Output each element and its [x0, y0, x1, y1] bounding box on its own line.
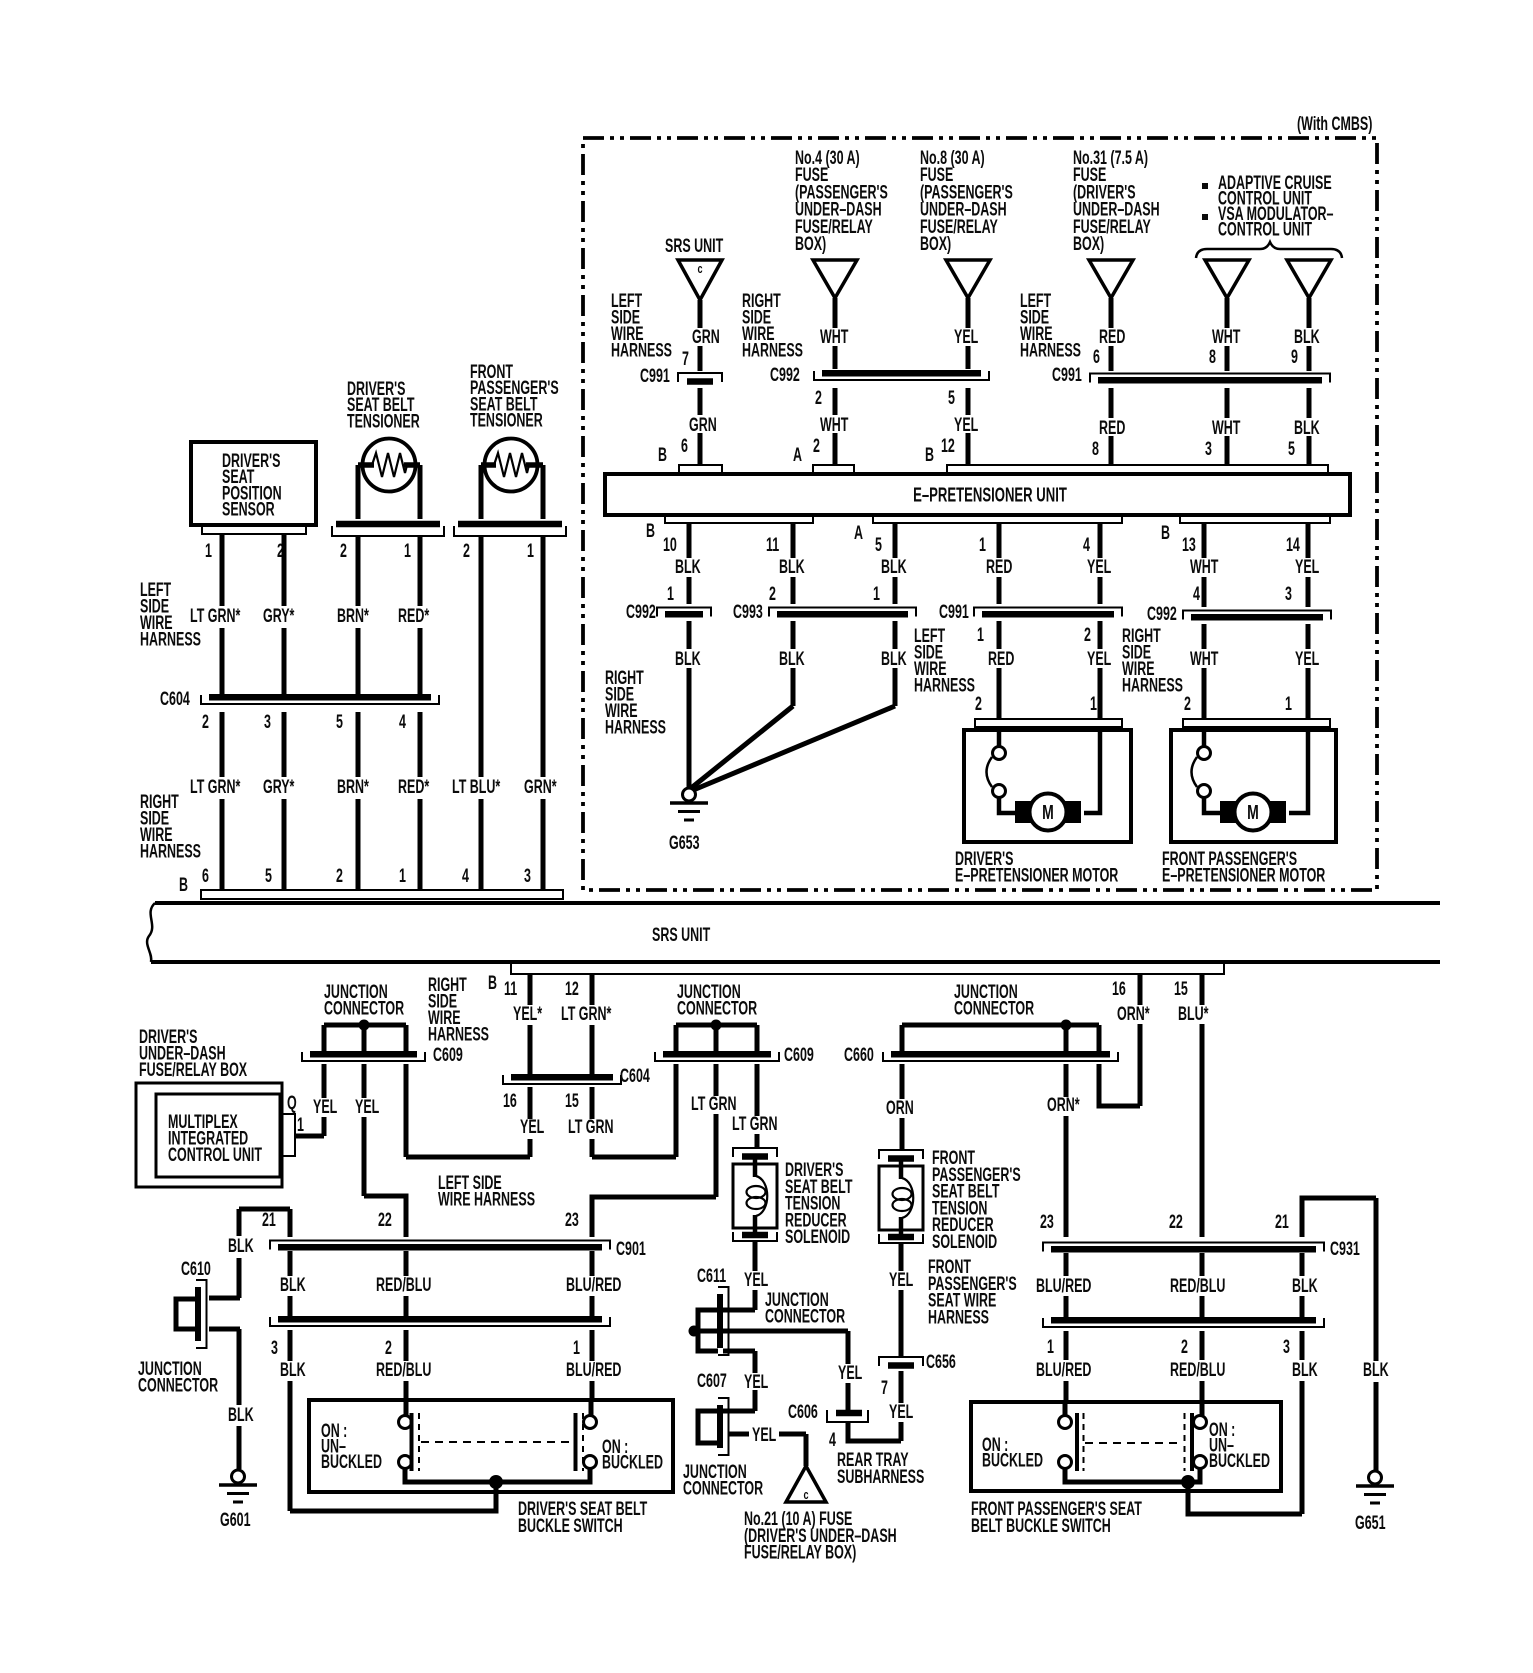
- svg-text:YEL: YEL: [313, 1096, 337, 1117]
- wire BLK C901-3 to switch common: [288, 1330, 293, 1511]
- label multiplex integrated control unit: [168, 1111, 262, 1165]
- label front passenger's seat belt buckle switch: [971, 1498, 1142, 1536]
- svg-text:HARNESS: HARNESS: [928, 1307, 989, 1328]
- label WHT below: [1190, 648, 1218, 669]
- wire BLU/RED C901-1 to switch: [590, 1330, 595, 1402]
- label C991 (right): [1052, 364, 1082, 385]
- ground G651: [1356, 1471, 1394, 1503]
- label LT GRN (JC2 center): [691, 1093, 736, 1114]
- svg-text:BOX): BOX): [795, 233, 826, 254]
- ground G601: [219, 1470, 257, 1502]
- pin 2 (SRS B): [336, 865, 343, 886]
- svg-text:8: 8: [1209, 346, 1216, 367]
- svg-text:(With CMBS): (With CMBS): [1297, 113, 1372, 134]
- wire JC1 right leg lower: [404, 1064, 409, 1157]
- pin 2 (E-pret A): [813, 435, 820, 456]
- svg-text:1: 1: [979, 534, 986, 555]
- wire LT BLU* tensioner2-2 to SRS B4: [479, 536, 484, 890]
- wire BLK C931-3 down: [1300, 1331, 1305, 1514]
- svg-text:FUSE/RELAY BOX): FUSE/RELAY BOX): [744, 1542, 856, 1563]
- connector C609 (left): [302, 1052, 425, 1061]
- label BLK (11): [779, 556, 805, 577]
- svg-text:WHT: WHT: [1212, 417, 1240, 438]
- svg-text:C607: C607: [697, 1370, 727, 1391]
- svg-text:HARNESS: HARNESS: [428, 1024, 489, 1045]
- svg-text:YEL: YEL: [744, 1371, 768, 1392]
- svg-text:HARNESS: HARNESS: [605, 717, 666, 738]
- svg-text:1: 1: [527, 540, 534, 561]
- label YEL (4): [1087, 556, 1111, 577]
- wire into driver motor pin 2: [997, 727, 1002, 747]
- pin 2 (C993): [769, 583, 776, 604]
- driver's seat belt buckle switch box: [309, 1400, 673, 1492]
- label driver's under-dash fuse/relay box: [139, 1026, 247, 1080]
- pin 1 (C931): [1047, 1336, 1054, 1357]
- wire contact to motor brush: [999, 797, 1016, 813]
- junction dot passenger switch common: [1181, 1475, 1195, 1489]
- label left side wire harness (left): [140, 579, 201, 650]
- wire YEL E-pret 4 to driver motor: [1098, 523, 1103, 719]
- svg-text:1: 1: [297, 1114, 304, 1135]
- label YEL (C656 lower): [889, 1401, 913, 1422]
- svg-text:BUCKLED: BUCKLED: [1209, 1450, 1270, 1471]
- label C610: [181, 1258, 211, 1279]
- svg-text:BLU/RED: BLU/RED: [566, 1359, 622, 1380]
- connector driver's solenoid top: [733, 1148, 777, 1157]
- label WHT lower: [820, 414, 848, 435]
- svg-text:E–PRETENSIONER MOTOR: E–PRETENSIONER MOTOR: [955, 865, 1118, 886]
- wire YEL C607 to fuse No.21: [729, 1434, 806, 1466]
- svg-text:1: 1: [977, 624, 984, 645]
- wire GRN from SRS unit to E-pretensioner B6: [698, 300, 703, 465]
- wire tensioner1 pin 1: [418, 465, 423, 519]
- wire BLU/RED into box: [589, 1402, 594, 1416]
- label YEL (C607-fuse): [752, 1424, 776, 1445]
- svg-text:LT GRN*: LT GRN*: [190, 776, 241, 797]
- driver's seat belt tensioner symbol: [358, 439, 420, 492]
- svg-text:BLK: BLK: [1292, 1359, 1318, 1380]
- svg-text:C991: C991: [1052, 364, 1082, 385]
- svg-text:BUCKLE SWITCH: BUCKLE SWITCH: [518, 1515, 623, 1536]
- label C992 (top): [770, 364, 800, 385]
- svg-text:B: B: [1161, 522, 1170, 543]
- svg-text:1: 1: [667, 583, 674, 604]
- svg-text:13: 13: [1182, 534, 1196, 555]
- wire WHT E-pret 13 to passenger motor: [1202, 523, 1207, 719]
- wire BLK E-pret 5 to C993: [893, 523, 898, 706]
- pin group B (12): [925, 444, 934, 465]
- connector C992 (mid left): [657, 608, 711, 617]
- label RED* upper: [398, 605, 430, 626]
- svg-text:FUSE/RELAY BOX: FUSE/RELAY BOX: [139, 1059, 247, 1080]
- label ORN* (SRS 16): [1117, 1003, 1150, 1024]
- svg-text:BUCKLED: BUCKLED: [321, 1451, 382, 1472]
- wire JC2 right leg upper: [755, 1025, 760, 1052]
- label front passenger's seat wire harness: [928, 1256, 1017, 1328]
- pin 2 (C992): [815, 387, 822, 408]
- label driver's e-pretensioner motor: [955, 848, 1118, 886]
- wire GRY* sensor 2 to SRS B5: [282, 534, 287, 890]
- svg-text:CONNECTOR: CONNECTOR: [765, 1306, 845, 1327]
- junction connector C609 right top bar: [676, 1023, 757, 1028]
- svg-text:23: 23: [565, 1209, 579, 1230]
- ground G653: [670, 788, 708, 820]
- label WHT upper right: [1212, 326, 1240, 347]
- svg-text:BLK: BLK: [1363, 1359, 1389, 1380]
- wire RED/BLU C901-2 to switch: [404, 1330, 409, 1416]
- label (With CMBS): [1297, 113, 1372, 134]
- pin 2 (passenger motor): [1184, 693, 1191, 714]
- svg-text:YEL: YEL: [355, 1096, 379, 1117]
- tab E-pret pins 13-14: [1180, 515, 1330, 523]
- svg-text:YEL: YEL: [954, 326, 978, 347]
- connector passenger's solenoid bottom: [879, 1234, 923, 1243]
- passenger switch dashed link: [1085, 1442, 1183, 1444]
- dash-dot border (With CMBS section): [583, 138, 1377, 890]
- pin 14: [1286, 534, 1301, 555]
- pin 4: [1083, 534, 1091, 555]
- svg-text:YEL: YEL: [744, 1269, 768, 1290]
- label C660: [844, 1044, 874, 1065]
- wire stub into passenger solenoid coil: [899, 1160, 904, 1179]
- label BLK (5): [881, 556, 907, 577]
- brace over adaptive cruise / VSA triangles: [1196, 242, 1342, 258]
- pin 5 (E-pret): [1288, 438, 1295, 459]
- svg-text:2: 2: [202, 711, 209, 732]
- pin 5: [875, 534, 882, 555]
- svg-text:C609: C609: [433, 1044, 463, 1065]
- pin 15 (C604): [565, 1090, 579, 1111]
- svg-text:2: 2: [1184, 693, 1191, 714]
- label right side wire harness (top): [742, 290, 803, 361]
- label YEL below (14): [1295, 648, 1319, 669]
- svg-text:2: 2: [336, 865, 343, 886]
- svg-text:1: 1: [1047, 1336, 1054, 1357]
- wire rear tray subharness: [848, 1423, 901, 1441]
- wire BLK VSA modulator to E-pretensioner 5: [1307, 298, 1312, 465]
- svg-text:HARNESS: HARNESS: [140, 841, 201, 862]
- SRS unit connector triangle with c: [678, 260, 722, 300]
- front passenger's seat belt tension reducer solenoid box: [879, 1166, 923, 1230]
- label front passenger's e-pretensioner motor: [1162, 848, 1325, 886]
- label right side wire harness (below SRS): [428, 974, 489, 1045]
- wire BLK to ground G651: [1374, 1198, 1379, 1471]
- wire stub C610 bottom: [209, 1327, 240, 1332]
- svg-text:3: 3: [1283, 1336, 1290, 1357]
- svg-text:B: B: [179, 874, 188, 895]
- svg-text:2: 2: [463, 540, 470, 561]
- wire RED/BLU between C901 bars: [404, 1251, 409, 1316]
- label C604 (left): [160, 688, 191, 709]
- passenger switch right contact: [1185, 1413, 1207, 1471]
- wire C660 center leg upper: [1064, 1025, 1069, 1052]
- front passenger's seat belt tensioner symbol: [481, 439, 543, 492]
- label BLK below (5): [881, 648, 907, 669]
- svg-text:BLK: BLK: [675, 648, 701, 669]
- svg-text:1: 1: [399, 865, 406, 886]
- wire to MICU pin 1: [296, 1134, 324, 1139]
- svg-text:BLU*: BLU*: [1178, 1003, 1209, 1024]
- wire diagonal BLK to ground: [690, 706, 793, 789]
- svg-text:CONNECTOR: CONNECTOR: [324, 998, 404, 1019]
- svg-text:C991: C991: [939, 601, 969, 622]
- junction connector C609 left top bar: [324, 1023, 406, 1028]
- wire LT GRN jog to C901 pin 23: [592, 1197, 716, 1237]
- pin 1 (MICU): [297, 1114, 304, 1135]
- front passenger's e-pretensioner motor box: [1171, 730, 1336, 842]
- svg-text:CONTROL UNIT: CONTROL UNIT: [168, 1144, 262, 1165]
- svg-text:BLK: BLK: [881, 556, 907, 577]
- svg-text:12: 12: [565, 978, 579, 999]
- svg-text:5: 5: [336, 711, 343, 732]
- wire stub into driver solenoid coil: [753, 1158, 758, 1177]
- svg-text:1: 1: [205, 540, 212, 561]
- adaptive cruise control unit triangle: [1205, 260, 1249, 298]
- svg-text:C604: C604: [620, 1065, 651, 1086]
- wire BLU/RED C931-1 to switch: [1064, 1331, 1069, 1402]
- label LT GRN (C604-15): [568, 1116, 613, 1137]
- label RED/BLU (C901 low): [376, 1359, 431, 1380]
- svg-text:B: B: [646, 520, 655, 541]
- label C992 (mid right): [1147, 603, 1177, 624]
- svg-text:TENSIONER: TENSIONER: [470, 410, 543, 431]
- svg-text:WHT: WHT: [1190, 648, 1218, 669]
- label fuse No.21: [744, 1508, 897, 1563]
- label left side wire harness (lower): [438, 1172, 535, 1210]
- label E-PRETENSIONER UNIT: [913, 483, 1067, 507]
- svg-text:C992: C992: [770, 364, 800, 385]
- svg-text:2: 2: [1084, 624, 1091, 645]
- wire stub out of driver solenoid coil: [753, 1215, 758, 1237]
- label RED/BLU (C901 mid): [376, 1274, 431, 1295]
- label right side wire harness (left): [140, 791, 201, 862]
- wire RED E-pret 1 to driver motor: [997, 523, 1002, 719]
- svg-text:WHT: WHT: [820, 414, 848, 435]
- svg-text:C931: C931: [1330, 1238, 1360, 1259]
- svg-text:G651: G651: [1355, 1512, 1386, 1533]
- wire YEL into driver motor pin 1: [1084, 727, 1100, 813]
- connector C931 (lower bar): [1043, 1318, 1324, 1327]
- pin 21 (C901): [262, 1209, 276, 1230]
- svg-text:BUCKLED: BUCKLED: [602, 1452, 663, 1473]
- pin 13: [1182, 534, 1196, 555]
- pin 3 (C992 right mid): [1285, 583, 1292, 604]
- connector C991 (left, single): [678, 373, 722, 382]
- svg-text:3: 3: [264, 711, 271, 732]
- pin 16 (SRS): [1112, 978, 1126, 999]
- svg-text:5: 5: [948, 387, 955, 408]
- label front passenger's seat belt tensioner: [470, 361, 559, 431]
- svg-text:HARNESS: HARNESS: [1122, 675, 1183, 696]
- label driver's seat belt tension reducer solenoid: [785, 1159, 852, 1248]
- svg-text:TENSIONER: TENSIONER: [347, 411, 420, 432]
- junction dot C660: [1061, 1020, 1072, 1031]
- pin 2 (tensioner1): [340, 540, 347, 561]
- wire BLU/RED between C901 bars: [590, 1251, 595, 1316]
- label YEL (JC1 left): [313, 1096, 337, 1117]
- svg-text:C992: C992: [1147, 603, 1177, 624]
- label RED/BLU (C931 low): [1170, 1359, 1225, 1380]
- wire RED/BLU C931-2 to switch: [1200, 1331, 1205, 1416]
- label ORN* (center): [1047, 1094, 1080, 1115]
- svg-text:11: 11: [766, 534, 779, 555]
- svg-text:1: 1: [1090, 693, 1097, 714]
- label junction connector (C610): [138, 1358, 218, 1396]
- wire BRN* tensioner1-2 to SRS B2: [356, 536, 361, 890]
- label driver's seat belt tensioner: [347, 378, 420, 432]
- connector C931 (upper bar): [1043, 1243, 1324, 1252]
- solenoid coil (passenger): [893, 1178, 914, 1218]
- label BLK upper: [1294, 326, 1320, 347]
- driver motor M symbol: [1015, 794, 1081, 831]
- svg-text:RED/BLU: RED/BLU: [1170, 1359, 1225, 1380]
- svg-text:7: 7: [881, 1377, 888, 1398]
- svg-text:SRS UNIT: SRS UNIT: [665, 235, 723, 256]
- svg-text:22: 22: [1169, 1211, 1183, 1232]
- wire YEL C611 to C606: [846, 1331, 851, 1410]
- svg-text:SRS UNIT: SRS UNIT: [652, 924, 710, 945]
- pin 3 (C931): [1283, 1336, 1290, 1357]
- pin 10: [663, 534, 677, 555]
- svg-text:HARNESS: HARNESS: [611, 340, 672, 361]
- svg-text:BLK: BLK: [1292, 1275, 1318, 1296]
- svg-text:15: 15: [565, 1090, 579, 1111]
- fuse No.21 triangle: [786, 1466, 826, 1502]
- pin 2 (C604): [202, 711, 209, 732]
- svg-text:YEL: YEL: [889, 1401, 913, 1422]
- pin 21 (C931): [1275, 1211, 1289, 1232]
- wire LT GRN JC2 right leg to solenoid: [755, 1064, 760, 1148]
- svg-text:BLK: BLK: [280, 1359, 306, 1380]
- svg-text:LT GRN: LT GRN: [732, 1113, 777, 1134]
- connector passenger's solenoid top: [879, 1150, 923, 1159]
- label front passenger's solenoid: [932, 1147, 1021, 1252]
- pin 5 (C604): [336, 711, 343, 732]
- svg-text:C901: C901: [616, 1238, 646, 1259]
- label C991 (left): [640, 365, 670, 386]
- label ORN: [886, 1097, 914, 1118]
- svg-text:B: B: [658, 444, 667, 465]
- svg-text:YEL: YEL: [752, 1424, 776, 1445]
- svg-text:CONNECTOR: CONNECTOR: [138, 1375, 218, 1396]
- label right side wire harness (mid): [605, 667, 666, 738]
- svg-text:2: 2: [975, 693, 982, 714]
- svg-text:C993: C993: [733, 601, 763, 622]
- pin group B (below SRS): [488, 972, 497, 993]
- svg-text:6: 6: [681, 435, 688, 456]
- label driver's seat position sensor: [222, 450, 282, 520]
- label BLK (C901 low): [280, 1359, 306, 1380]
- wire RED* tensioner1-1 to SRS B1: [418, 536, 423, 890]
- svg-text:YEL: YEL: [1087, 556, 1111, 577]
- fuse No.31 triangle: [1089, 260, 1133, 298]
- svg-text:YEL: YEL: [838, 1362, 862, 1383]
- svg-text:LT GRN: LT GRN: [691, 1093, 736, 1114]
- wire switch common (passenger): [1065, 1468, 1200, 1482]
- wire JC1 right leg upper: [404, 1025, 409, 1052]
- wire tensioner2 pin 1: [541, 465, 546, 519]
- svg-text:4: 4: [462, 865, 470, 886]
- connector C656: [879, 1357, 923, 1366]
- label C611: [697, 1265, 726, 1286]
- pin 1 (driver motor): [1090, 693, 1097, 714]
- wire WHT fuse No.4 to E-pretensioner A2: [833, 298, 838, 465]
- svg-text:12: 12: [941, 435, 955, 456]
- pin 1 (sensor): [205, 540, 212, 561]
- svg-text:22: 22: [378, 1209, 392, 1230]
- svg-text:5: 5: [1288, 438, 1295, 459]
- wire BLK between C931 bars: [1300, 1253, 1305, 1317]
- svg-text:16: 16: [503, 1090, 517, 1111]
- svg-text:4: 4: [1193, 583, 1201, 604]
- label adaptive cruise / VSA units: [1202, 172, 1333, 240]
- label BLU/RED (C901 mid): [566, 1274, 622, 1295]
- svg-text:M: M: [1247, 800, 1259, 823]
- tab E-pret pin A2: [813, 465, 854, 474]
- svg-text:4: 4: [399, 711, 407, 732]
- svg-text:3: 3: [524, 865, 531, 886]
- wire ORN* C660 to C931 pin 23: [1064, 1064, 1069, 1237]
- svg-text:BRN*: BRN*: [337, 776, 369, 797]
- pin 1 (C993): [873, 583, 880, 604]
- pin 8 (E-pret): [1092, 438, 1099, 459]
- label GRY* upper: [263, 605, 295, 626]
- pin 23 (C931): [1040, 1211, 1054, 1232]
- label YEL (C611-C606): [838, 1362, 862, 1383]
- label LT GRN (JC2 right): [732, 1113, 777, 1134]
- fuse No.4 triangle: [813, 260, 857, 298]
- svg-text:G601: G601: [220, 1509, 251, 1530]
- wire C611 to C606 horizontal: [699, 1329, 848, 1334]
- junction connector C660 top bar: [902, 1023, 1099, 1028]
- label BLK below (11): [779, 648, 805, 669]
- label YEL (solenoid-C611): [744, 1269, 768, 1290]
- svg-text:B: B: [488, 972, 497, 993]
- svg-text:RED: RED: [986, 556, 1012, 577]
- svg-text:BLK: BLK: [881, 648, 907, 669]
- svg-text:RED: RED: [1099, 326, 1125, 347]
- svg-text:c: c: [803, 1489, 808, 1503]
- svg-text:BLK: BLK: [675, 556, 701, 577]
- svg-text:WHT: WHT: [820, 326, 848, 347]
- svg-text:HARNESS: HARNESS: [140, 629, 201, 650]
- pin group B (SRS): [179, 874, 188, 895]
- svg-text:2: 2: [813, 435, 820, 456]
- wire stub C611 bottom: [723, 1349, 755, 1354]
- connector C991 (mid): [974, 608, 1122, 617]
- pin 4 (SRS B): [462, 865, 470, 886]
- svg-text:6: 6: [202, 865, 209, 886]
- svg-text:G653: G653: [669, 832, 700, 853]
- svg-text:RED*: RED*: [398, 605, 430, 626]
- svg-text:BLK: BLK: [228, 1404, 254, 1425]
- connector C604 (lower): [503, 1075, 621, 1084]
- label BLK (G651 wire): [1363, 1359, 1389, 1380]
- label RED upper: [1099, 326, 1125, 347]
- svg-text:SENSOR: SENSOR: [222, 499, 275, 520]
- label G601: [220, 1509, 251, 1530]
- svg-text:BOX): BOX): [920, 233, 951, 254]
- VSA modulator control unit triangle: [1287, 260, 1331, 298]
- label GRN lower: [689, 414, 717, 435]
- wire stub into C611: [723, 1308, 755, 1313]
- label ON : UN-BUCKLED (passenger): [1209, 1419, 1270, 1471]
- pin 16 (C604): [503, 1090, 517, 1111]
- svg-text:BELT BUCKLE SWITCH: BELT BUCKLE SWITCH: [971, 1515, 1111, 1536]
- wire BLK C931-21 up and over: [1302, 1198, 1376, 1237]
- svg-text:A: A: [854, 522, 863, 543]
- wire BLK under passenger switch: [1188, 1484, 1302, 1514]
